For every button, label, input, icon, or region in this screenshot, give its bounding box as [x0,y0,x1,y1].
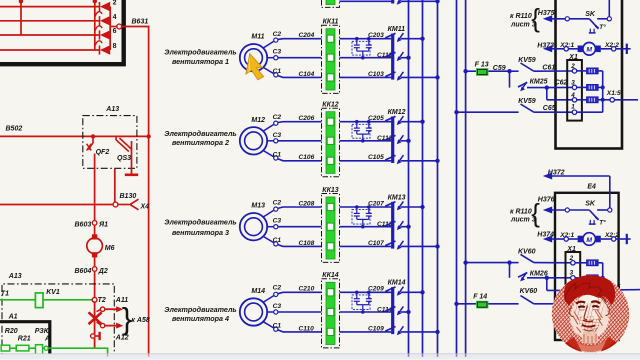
svg-text:КМ26: КМ26 [530,270,548,277]
node B603 / Я1 [75,221,109,229]
relay contact KV59 (lower) [454,98,536,114]
wire H373 [537,43,564,53]
motor M12 [240,117,267,155]
wire C65 [534,105,573,112]
wire thyristor row 6 [0,34,99,36]
svg-text:{: { [531,3,540,33]
fuse F14 [454,294,518,309]
relay contact KV60 (lower) [520,288,560,304]
pin 4 (X1 E3) [570,92,577,102]
thyristor 6 [95,26,116,40]
svg-text:C206: C206 [299,115,315,122]
svg-text:C112: C112 [377,135,393,142]
svg-text:KV60: KV60 [520,288,538,295]
svg-text:C105: C105 [368,154,384,161]
thermal switch SK (E3) [585,11,606,33]
svg-text:C2: C2 [273,114,282,121]
svg-text:C103: C103 [368,71,384,78]
contactor KM14 [385,280,405,336]
wire C2 phase M13 [263,199,321,217]
label к A58 [131,317,149,324]
pin 2 (X1 E4) [569,255,576,265]
wire C3 to bus / KM11 [401,56,411,60]
wire C1 to bus / KM11 [401,75,440,79]
svg-text:КМ25: КМ25 [530,78,548,85]
svg-text:B603: B603 [75,222,92,229]
svg-text:к А58: к А58 [131,317,149,324]
svg-text:Я1: Я1 [98,222,108,229]
label to R110 sheet 3 (upper) [510,3,540,33]
capacitor group C111 [352,37,392,60]
svg-text:C3: C3 [273,49,282,56]
svg-text:к R110: к R110 [510,13,532,20]
wire C3 phase M12 [267,132,321,143]
wire C1 phase M12 [263,151,321,162]
wire X2:2 end terminal [616,44,631,54]
svg-text:C114: C114 [377,306,393,313]
svg-text:M: M [586,237,592,244]
node B604 / Д2 [75,267,108,275]
wire anode link [110,7,117,50]
svg-text:2: 2 [113,0,117,7]
svg-text:C108: C108 [299,240,315,247]
wire B631 [122,19,149,358]
svg-text:B130: B130 [120,193,137,200]
label electric motor fan 4 [164,305,236,323]
wire C1 to bus / KM10 (partial) [340,0,440,4]
motor M11 [240,34,267,72]
wire C2 after KK11 [340,32,392,39]
relay contact KV60 (upper) [463,248,572,264]
wire C3 to bus / KM12 [401,139,411,143]
label to R110 sheet 3 (lower) [510,198,540,228]
svg-text:B502: B502 [6,126,23,133]
motor M13 [240,203,267,241]
svg-text:C3: C3 [273,303,282,310]
avatar portrait logo [550,273,631,354]
device box A13 (lower) [2,273,114,360]
svg-text:B631: B631 [132,19,149,26]
svg-text:F 13: F 13 [475,62,489,69]
wire C1 after KK14 [340,325,392,332]
relay coil KV1 [35,289,60,308]
wire M6 to T2 [94,255,96,299]
wire C3 after KK12 [340,140,392,142]
svg-text:КМ13: КМ13 [388,194,406,201]
svg-text:A13: A13 [105,106,119,113]
connector X1 (E3) [567,54,582,121]
svg-text:QF2: QF2 [96,149,110,156]
wire thyristor row 2 [0,6,99,8]
wire C2 to bus / KM14 [401,290,425,294]
svg-text:КК13: КК13 [322,187,338,194]
wire H374 [537,232,564,243]
thermal relay KK11 [322,19,340,94]
svg-text:КК11: КК11 [323,19,339,26]
svg-text:6: 6 [113,28,117,35]
svg-text:M11: M11 [251,34,264,41]
wire C3 to bus / KM13 [401,225,411,229]
svg-text:T°: T° [599,23,606,31]
wire C59 [493,65,519,74]
wire C3 after KK14 [340,311,392,313]
mouse cursor [246,54,264,80]
svg-text:C2: C2 [273,199,282,206]
wire KV1 to T2 [43,299,92,301]
svg-text:C104: C104 [299,71,315,78]
contactor contact KM26 [510,263,573,282]
contactor KM11 [385,26,405,81]
svg-text:8: 8 [113,43,117,50]
wire C1 after KK13 [340,240,392,247]
wire C2 phase M12 [263,114,321,131]
wire C2 to bus / KM13 [401,205,425,209]
wire C1 after KK12 [340,154,392,161]
svg-text:M12: M12 [251,117,265,124]
svg-text:C110: C110 [299,325,315,332]
svg-text:X4: X4 [140,204,150,211]
wire C3 phase M14 [267,303,321,314]
wire C1 to bus / KM14 [401,330,440,334]
motor M (E4 fan) [578,233,601,246]
wire SK to top [597,0,611,21]
svg-text:КК12: КК12 [322,102,338,109]
wire thyristor row 8 [0,49,99,51]
svg-text:КМ11: КМ11 [388,26,406,33]
svg-text:M: M [586,47,592,54]
wire internal link right [19,0,97,50]
svg-text:C2: C2 [273,285,282,292]
contactor KM12 [385,109,405,164]
wire to M6 [94,205,96,238]
unit box E3 [556,0,623,149]
wire C1 to bus / KM12 [401,159,440,163]
choke on pin 2 row (E4) [575,260,603,266]
node B130/QS3 junction [113,169,118,207]
pin 3 (X1 E4) [570,269,576,280]
wire B130 [0,193,136,205]
wire arrow to A58 (lower) [105,323,123,329]
terminal X2:1 (E3) [559,42,578,51]
terminal X2:1 (E4) [559,232,578,241]
node B631 terminal [117,24,122,29]
thermal switch SK (E4) [585,200,606,226]
label electric motor fan 1 [164,48,236,66]
contactor contact KM25 [510,71,548,91]
thyristor 8 [95,41,116,55]
wire X2:2 end terminal (E4) [616,234,631,244]
wire C2 after KK14 [340,286,392,293]
wire C1 phase M11 [263,67,321,77]
svg-text:C3: C3 [273,218,282,225]
disconnector QS3 [116,136,138,174]
wire C2 to bus / KM11 [401,37,425,41]
thermal relay KK12 [322,102,340,177]
svg-text:C61: C61 [542,65,555,72]
wire arrow to A58 (upper) [105,306,123,312]
node T2 [92,297,106,304]
wire T1 to KV1 [0,299,35,301]
svg-text:F 14: F 14 [473,294,487,301]
svg-text:QS3: QS3 [117,155,131,162]
svg-text:к R110: к R110 [510,208,532,215]
svg-text:C208: C208 [299,200,315,207]
svg-text:C204: C204 [299,32,315,39]
svg-text:C1: C1 [273,237,282,244]
wire SK to H372 riser [597,208,612,212]
unit box E4 [555,183,619,340]
pin 1 (X1 E3) [571,104,577,115]
wire C2 after KK13 [340,200,392,207]
terminal X1:5 (E4) [603,283,640,290]
svg-text:R21: R21 [18,336,31,343]
wire C61 [534,65,573,72]
svg-text:Электродвигатель: Электродвигатель [164,305,236,314]
pin 4 (X1 E4) [571,288,575,292]
bus phase C2 [422,0,424,357]
wire H375 [538,10,590,22]
svg-text:M6: M6 [105,245,115,252]
motor M6 [87,234,115,257]
resistor R20 [1,328,18,351]
terminal X1:5 (E3) [606,90,638,102]
node A12 branch [97,322,129,341]
svg-text:C2: C2 [273,31,282,38]
fuse F13 [463,62,509,76]
bus phase C3 [408,0,410,357]
label electric motor fan 3 [164,218,236,238]
svg-text:B604: B604 [75,268,92,275]
svg-text:C210: C210 [299,286,315,293]
svg-text:A: A [44,336,50,343]
svg-text:T1: T1 [1,291,9,298]
wire C2 after KK12 [340,115,392,122]
terminal X2:2 (E4) [601,232,619,241]
wire H372 [543,169,610,207]
label electric motor fan 2 [164,129,236,147]
svg-text:вентилятора 3: вентилятора 3 [172,228,229,237]
svg-text:R20: R20 [5,328,18,335]
svg-text:КМ14: КМ14 [388,280,406,287]
motor M14 [240,288,267,326]
choke on pin 2 row (E3) [577,68,603,74]
thyristor 4 [95,12,116,26]
svg-text:T2: T2 [98,297,106,304]
svg-text:C1: C1 [273,323,282,330]
thyristor 2 [95,0,116,11]
svg-text:вентилятора 1: вентилятора 1 [172,57,229,66]
svg-text:H376: H376 [538,197,555,204]
wire C62 [545,79,573,89]
wire C2 to bus / KM12 [401,120,425,124]
connector X4 [118,199,149,210]
svg-text:C106: C106 [299,154,315,161]
wire thyristor row 4 [0,20,99,22]
bus supply 1 [456,0,458,357]
svg-text:КМ12: КМ12 [388,109,406,116]
node A11 branch [97,297,129,312]
svg-text:C3: C3 [273,132,282,139]
svg-text:T°: T° [599,219,606,227]
svg-text:C107: C107 [368,240,384,247]
rectifier block A? (top-left black box) [0,0,124,64]
device box A13 (upper) [83,106,137,168]
svg-text:KV1: KV1 [46,289,60,296]
wire C1 phase M13 [263,236,321,246]
capacitor group C112 [352,120,393,143]
wire C3 phase M11 [267,49,321,60]
svg-text:КК14: КК14 [322,272,338,279]
wire H376 [538,197,590,214]
connector X (cross) [89,312,102,324]
svg-text:A13: A13 [8,273,22,280]
svg-text:E4: E4 [587,183,596,190]
svg-text:M13: M13 [251,203,265,210]
wire C2 phase M11 [263,31,321,48]
svg-text:X1:5: X1:5 [606,90,621,97]
relay contact KV59 (upper) [518,57,536,71]
contactor KM10 (partial) [393,0,404,5]
svg-text:4: 4 [113,14,117,21]
relay coil РЗЮ [29,328,51,356]
svg-text:C109: C109 [368,325,384,332]
wire KM25 to pin 4 [547,88,573,100]
svg-text:вентилятора 2: вентилятора 2 [172,138,229,147]
wire C1 phase M14 [263,322,321,333]
svg-text:Д2: Д2 [98,268,108,275]
resistor R21 [10,336,31,351]
svg-text:C65: C65 [543,105,556,112]
thermal relay KK10 (partial) [322,0,340,7]
svg-text:вентилятора 4: вентилятора 4 [172,314,229,323]
wire C3 phase M13 [267,218,321,229]
thermal relay KK14 [322,272,340,348]
wire stubs over bar [108,354,466,357]
terminal X2:2 (E3) [601,42,619,51]
pin 2 (X1 E3) [570,63,577,73]
wire A to right [48,348,107,360]
svg-text:C59: C59 [493,65,506,72]
wire T2 down [94,302,96,348]
svg-text:C113: C113 [377,221,393,228]
wire KM26 to pin 4 (E4) [547,278,572,291]
svg-text:M14: M14 [251,288,265,295]
capacitor group C113 [352,205,393,228]
svg-text:SK: SK [585,200,596,207]
wire C1 after KK11 [340,71,392,78]
wire C3 after KK11 [340,57,392,59]
bus phase C1 [437,0,439,357]
thermal relay KK13 [322,187,340,263]
wire internal link pin 6 [19,0,23,35]
svg-text:SK: SK [585,11,596,18]
bus chokes common (E3) [577,71,605,112]
svg-text:C62: C62 [555,79,568,86]
bus supply 2 [465,0,467,357]
svg-text:РЗЮ: РЗЮ [35,328,51,335]
motor M (E3 fan) [578,43,601,56]
wire B502 [0,126,151,139]
svg-text:C1: C1 [273,151,282,158]
node A [43,336,50,351]
svg-text:Электродвигатель: Электродвигатель [164,218,236,227]
wire C3 after KK13 [340,226,392,228]
node T1 [1,291,9,298]
pin 3 (X1 E3) [571,79,577,89]
svg-text:Электродвигатель: Электродвигатель [164,129,236,138]
bottom bar [0,354,640,360]
choke on pin 3 row (E3) [577,85,603,91]
connector X1 (E4) [566,246,581,313]
bracket к A58 [122,301,132,336]
bus chokes common (E4) [601,263,605,291]
svg-text:Электродвигатель: Электродвигатель [164,48,236,57]
choke on pin 4 row (E3) [577,97,610,103]
device box A1 [0,314,50,359]
capacitor group C114 [352,291,393,314]
wire C3 to bus / KM14 [401,310,411,314]
plug contact below X [91,332,100,340]
breaker QF2 [87,136,110,204]
wire C1 to bus / KM13 [401,244,440,248]
wire C2 phase M14 [263,285,321,303]
svg-text:A1: A1 [8,314,18,321]
contactor KM13 [385,194,405,249]
svg-text:C1: C1 [273,68,282,75]
choke on pin 3 row (E4) [575,275,603,281]
